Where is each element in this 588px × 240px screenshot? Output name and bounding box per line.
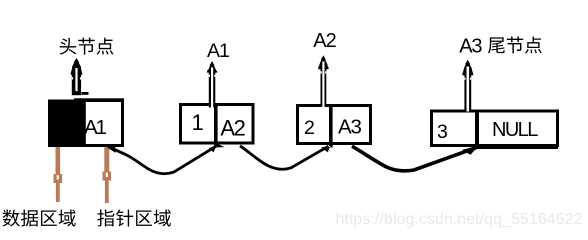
svg-text:3: 3 — [437, 121, 448, 143]
svg-text:A3: A3 — [459, 35, 482, 57]
svg-text:NULL: NULL — [492, 119, 538, 141]
svg-text:A2: A2 — [220, 116, 245, 141]
svg-text:A1: A1 — [207, 40, 229, 62]
svg-text:A3: A3 — [338, 115, 361, 138]
svg-text:1: 1 — [192, 110, 204, 135]
svg-text:2: 2 — [304, 117, 315, 139]
svg-text:A1: A1 — [84, 116, 106, 139]
svg-text:A2: A2 — [313, 30, 336, 52]
svg-text:https://blog.csdn.net/qq_55164: https://blog.csdn.net/qq_55164622 — [336, 211, 583, 228]
